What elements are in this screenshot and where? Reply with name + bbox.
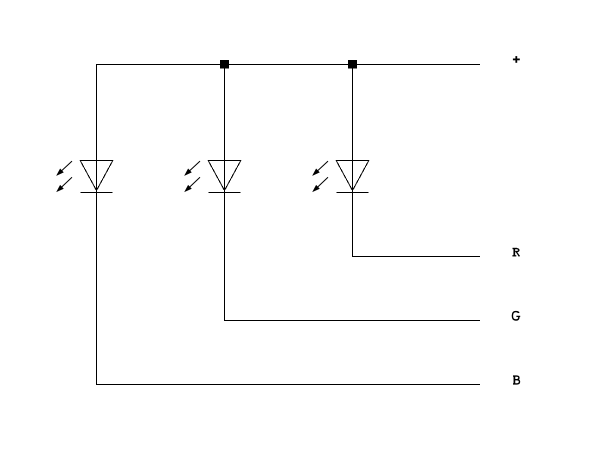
wire: R horizontal output	[352, 256, 480, 258]
node: junction on + rail at middle branch	[220, 60, 229, 69]
wire: B horizontal output	[96, 384, 480, 386]
wire: left vertical (anode of D1 to + rail, cathode down to B)	[96, 64, 98, 385]
wire: G horizontal output	[224, 320, 480, 322]
LED D1 (left diode symbol with emission arrows)	[57, 161, 113, 193]
node: junction on + rail at right branch	[348, 60, 357, 69]
label: G net	[512, 312, 520, 320]
wire: middle vertical (D2 branch down to G)	[224, 64, 226, 321]
label: R net	[512, 248, 519, 256]
LED D2 (middle diode symbol with emission arrows)	[185, 161, 241, 193]
label: B net	[513, 376, 520, 384]
wire: + top rail	[96, 64, 480, 66]
LED D3 (right diode symbol with emission arrows)	[313, 161, 369, 193]
label: + (positive rail)	[513, 56, 520, 63]
wire: right vertical (D3 branch down to R)	[352, 64, 354, 257]
